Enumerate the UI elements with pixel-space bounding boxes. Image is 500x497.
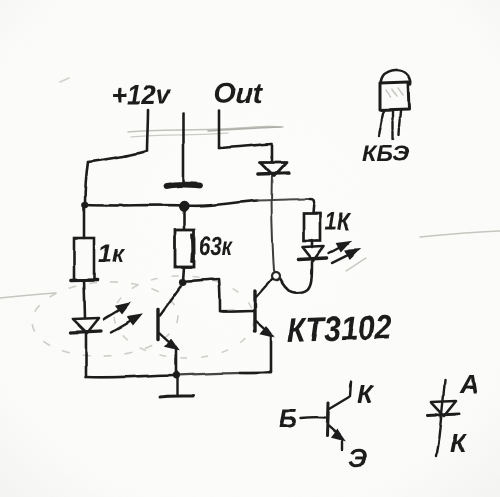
- phototransistor Q1 bar: [156, 309, 159, 340]
- LED D2 left optocoupler: [71, 318, 101, 333]
- wire R2 to node B: [183, 267, 184, 281]
- TO-92 leg 3: [399, 111, 401, 136]
- wire main rail right part: [258, 199, 310, 201]
- wire R3 to LED2: [311, 240, 314, 247]
- node C small circle: [272, 273, 280, 281]
- wire Out stub down: [218, 111, 221, 148]
- TO-92 leg 2: [392, 111, 394, 139]
- legend diode stem: [436, 380, 445, 456]
- pen mark speck: [124, 154, 127, 157]
- wire bottom rail left: [86, 375, 176, 377]
- capacitor plate bar: [167, 185, 200, 186]
- faint pencil tick top left: [60, 78, 69, 82]
- wire middle stub down: [182, 113, 185, 185]
- wire Q1 emitter to rail: [175, 350, 178, 373]
- wire +12V stub down: [147, 110, 148, 151]
- svg-text:Б: Б: [279, 403, 297, 433]
- svg-text:63к: 63к: [199, 231, 233, 261]
- resistor R3 1K right: [304, 214, 321, 241]
- resistor R1 1K left: [74, 238, 94, 280]
- wire bottom rail right: [176, 373, 271, 375]
- legend transistor base wire: [301, 416, 325, 419]
- faint pencil mark right edge: [420, 231, 500, 237]
- wire corner to diode D1: [271, 144, 274, 161]
- svg-text:1К: 1К: [325, 208, 351, 236]
- wire main +12 rail: [85, 201, 258, 206]
- legend transistor emitter: [328, 425, 343, 450]
- wire Q2 emitter to bottom rail: [240, 372, 271, 373]
- wire rail dot to R2: [183, 211, 186, 229]
- ground: [160, 378, 193, 397]
- wire LED2 hook to node C: [280, 262, 312, 293]
- junction dot node A big: [179, 201, 189, 211]
- resistor R2 63K: [175, 230, 194, 268]
- LED D3 right: [298, 246, 327, 261]
- svg-text:К: К: [450, 428, 468, 458]
- wire Out to diode corner: [219, 144, 272, 148]
- TO-92 leg 1: [379, 111, 384, 136]
- LED D3 arrow 1: [329, 242, 349, 253]
- wire Q2 emitter down: [270, 337, 273, 372]
- svg-text:КТ3102: КТ3102: [286, 308, 392, 350]
- svg-text:1к: 1к: [98, 240, 126, 268]
- optocoupler dashed ellipse right: [113, 274, 256, 361]
- diode D1 top: [258, 162, 289, 176]
- transistor Q2 bar: [253, 291, 256, 331]
- legend diode bar: [428, 414, 459, 416]
- wire D1 to node C: [272, 176, 274, 271]
- phototransistor Q1 collector: [160, 286, 181, 315]
- LED D2 arrow 2: [111, 315, 140, 332]
- legend transistor collector: [329, 382, 351, 409]
- wire R1 to LED1: [84, 280, 85, 318]
- wire node B to Q2 base step: [187, 279, 254, 312]
- legend diode triangle: [431, 401, 456, 416]
- wire rail corner to R3: [310, 199, 314, 213]
- LED D3 arrow 2: [332, 250, 358, 263]
- transistor Q2 collector: [256, 279, 272, 297]
- TO-92 package body: [380, 70, 411, 110]
- svg-text:Out: Out: [214, 78, 263, 110]
- wire left rail vertical: [85, 162, 88, 204]
- optocoupler dashed ellipse left: [30, 278, 180, 360]
- faint pencil sketch lines top: [128, 126, 283, 137]
- legend transistor bar: [327, 403, 328, 435]
- faint pencil mark left edge: [0, 293, 56, 298]
- svg-text:+12v: +12v: [112, 79, 171, 110]
- svg-text:К: К: [357, 379, 375, 409]
- wire rail to resistor R1: [83, 205, 86, 238]
- phototransistor Q1 emitter: [159, 333, 177, 349]
- faint pencil dash near right LED: [346, 258, 366, 271]
- svg-text:A: A: [459, 369, 479, 399]
- wire LED1 to bottom rail: [85, 334, 88, 377]
- wire +12V to left rail: [88, 151, 147, 162]
- svg-text:КБЭ: КБЭ: [362, 141, 409, 166]
- junction dot node B: [179, 278, 186, 285]
- transistor Q2 emitter: [256, 321, 272, 336]
- junction dot left rail: [82, 202, 89, 209]
- LED D2 arrow 1: [104, 304, 128, 319]
- svg-text:Э: Э: [348, 443, 367, 473]
- junction dot bottom rail: [172, 371, 179, 378]
